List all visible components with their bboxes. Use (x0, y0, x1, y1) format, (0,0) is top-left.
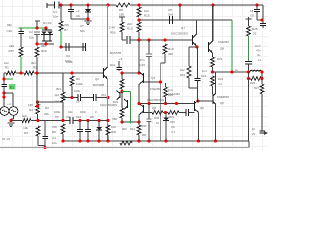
svg-text:E1: E1 (10, 86, 14, 90)
svg-text:10: 10 (252, 127, 256, 131)
svg-text:R41: R41 (110, 63, 116, 67)
svg-text:R19: R19 (168, 47, 174, 51)
svg-text:100: 100 (54, 100, 59, 104)
svg-text:Q8: Q8 (200, 106, 204, 110)
svg-text:0R1: 0R1 (56, 87, 62, 91)
svg-text:+2: +2 (76, 9, 80, 13)
svg-text:R34: R34 (113, 100, 119, 104)
svg-text:180: 180 (142, 133, 147, 137)
svg-text:R8: R8 (52, 130, 56, 134)
svg-text:1k6: 1k6 (22, 114, 27, 118)
svg-text:10u: 10u (52, 141, 57, 145)
svg-text:C10: C10 (101, 93, 107, 97)
svg-text:BC557B: BC557B (110, 51, 121, 55)
svg-text:C15: C15 (140, 63, 146, 67)
svg-text:1k2: 1k2 (54, 93, 59, 97)
svg-text:C2: C2 (29, 30, 33, 34)
svg-text:R25: R25 (252, 27, 258, 31)
svg-text:BC546B: BC546B (93, 83, 104, 87)
svg-text:4.1: 4.1 (218, 82, 222, 86)
svg-text:12K: 12K (111, 125, 116, 129)
svg-text:R57: R57 (8, 49, 14, 53)
svg-text:C7: C7 (80, 24, 84, 28)
svg-text:C9: C9 (66, 115, 70, 119)
svg-text:Q6: Q6 (152, 106, 156, 110)
svg-text:7k6: 7k6 (64, 23, 69, 27)
svg-text:R1: R1 (5, 66, 9, 70)
svg-text:R10: R10 (127, 27, 133, 31)
svg-text:D1 D2: D1 D2 (43, 21, 52, 25)
svg-text:C8: C8 (76, 100, 80, 104)
svg-text:R2: R2 (29, 108, 33, 112)
svg-text:V3: V3 (252, 132, 256, 136)
svg-text:C30: C30 (6, 29, 12, 33)
svg-text:R15: R15 (144, 14, 150, 18)
svg-text:3.3: 3.3 (171, 130, 175, 134)
svg-text:9k1: 9k1 (31, 61, 36, 65)
svg-text:180: 180 (119, 13, 124, 17)
svg-text:100k: 100k (66, 60, 73, 64)
svg-text:C16: C16 (76, 115, 82, 119)
svg-text:R5: R5 (33, 66, 37, 70)
svg-text:20k: 20k (44, 112, 49, 116)
svg-text:R37: R37 (142, 124, 148, 128)
svg-text:100k: 100k (76, 82, 83, 86)
svg-text:Q2: Q2 (95, 77, 99, 81)
svg-text:680: 680 (112, 117, 117, 121)
svg-text:R56: R56 (110, 31, 116, 35)
svg-text:390: 390 (168, 52, 173, 56)
svg-text:R27: R27 (254, 86, 260, 90)
svg-text:R8: R8 (119, 8, 123, 12)
svg-text:10n: 10n (53, 15, 58, 19)
svg-text:100k: 100k (74, 89, 81, 93)
svg-text:100k: 100k (54, 110, 61, 114)
svg-text:V1 V2: V1 V2 (2, 137, 11, 141)
svg-text:10: 10 (156, 121, 160, 125)
svg-text:18: 18 (250, 9, 254, 13)
svg-text:340: 340 (170, 120, 175, 124)
svg-text:KSE3503: KSE3503 (217, 95, 229, 99)
svg-text:C9: C9 (76, 14, 80, 18)
svg-text:68p: 68p (7, 23, 12, 27)
svg-text:180: 180 (28, 103, 33, 107)
svg-text:R12: R12 (130, 127, 136, 131)
svg-text:C16: C16 (201, 74, 207, 78)
svg-text:KSC3503DS: KSC3503DS (147, 98, 164, 102)
svg-text:Q8: Q8 (220, 47, 224, 51)
svg-text:100n: 100n (80, 110, 87, 114)
svg-text:D6: D6 (90, 115, 94, 119)
svg-text:Q9: Q9 (220, 101, 224, 105)
svg-text:1k2: 1k2 (4, 61, 9, 65)
svg-text:R30: R30 (111, 130, 117, 134)
svg-text:KSE350: KSE350 (150, 87, 161, 91)
svg-text:220: 220 (9, 44, 14, 48)
svg-text:R60: R60 (41, 49, 47, 53)
svg-text:47n: 47n (256, 49, 261, 53)
svg-text:R25: R25 (250, 81, 256, 85)
svg-text:2.4K: 2.4K (109, 26, 115, 30)
svg-text:50n: 50n (80, 29, 85, 33)
svg-text:KSE350: KSE350 (218, 40, 229, 44)
svg-text:1k2: 1k2 (180, 68, 185, 72)
svg-text:+ A: + A (7, 102, 11, 106)
svg-text:C8: C8 (168, 8, 172, 12)
svg-text:1u4: 1u4 (202, 69, 207, 73)
svg-text:KSA1381: KSA1381 (168, 92, 180, 96)
svg-text:10k: 10k (23, 126, 28, 130)
svg-text:KSC3503DS: KSC3503DS (171, 32, 188, 36)
svg-text:10u: 10u (29, 36, 34, 40)
svg-text:R21: R21 (169, 115, 175, 119)
svg-text:0: 0 (95, 110, 97, 114)
svg-text:47u: 47u (140, 58, 145, 62)
svg-text:C4: C4 (52, 136, 56, 140)
svg-text:500: 500 (122, 127, 127, 131)
svg-text:C17: C17 (255, 44, 261, 48)
svg-text:Y0: Y0 (250, 14, 254, 18)
svg-text:29: 29 (253, 32, 257, 36)
svg-text:R22: R22 (180, 73, 186, 77)
svg-text:R9: R9 (76, 77, 80, 81)
svg-text:1k2: 1k2 (144, 9, 149, 13)
svg-text:Q7: Q7 (181, 26, 185, 30)
svg-text:7k6: 7k6 (52, 125, 57, 129)
svg-text:L1: L1 (258, 58, 262, 62)
svg-text:3n9: 3n9 (168, 13, 173, 17)
svg-text:C6: C6 (55, 115, 59, 119)
svg-text:360: 360 (41, 44, 46, 48)
svg-text:C4: C4 (53, 10, 57, 14)
svg-text:C6: C6 (171, 125, 175, 129)
svg-text:R3: R3 (45, 106, 49, 110)
svg-text:4u: 4u (257, 53, 261, 57)
svg-text:10k: 10k (68, 110, 73, 114)
svg-text:+3: +3 (119, 57, 123, 61)
svg-text:1u: 1u (235, 68, 239, 72)
svg-text:R6: R6 (24, 131, 28, 135)
svg-text:R23: R23 (217, 57, 223, 61)
svg-text:Q4: Q4 (151, 76, 155, 80)
svg-text:C3: C3 (66, 54, 70, 58)
svg-text:R7: R7 (64, 28, 68, 32)
svg-text:2k0: 2k0 (127, 22, 132, 26)
svg-text:R36: R36 (154, 116, 160, 120)
svg-text:R24: R24 (218, 77, 224, 81)
